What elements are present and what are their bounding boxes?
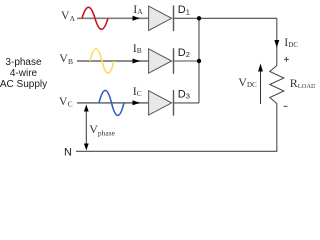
svg-text:AC Supply: AC Supply <box>0 79 47 90</box>
svg-text:N: N <box>64 147 72 159</box>
svg-text:3-phase: 3-phase <box>5 57 42 68</box>
svg-text:4-wire: 4-wire <box>10 68 38 79</box>
